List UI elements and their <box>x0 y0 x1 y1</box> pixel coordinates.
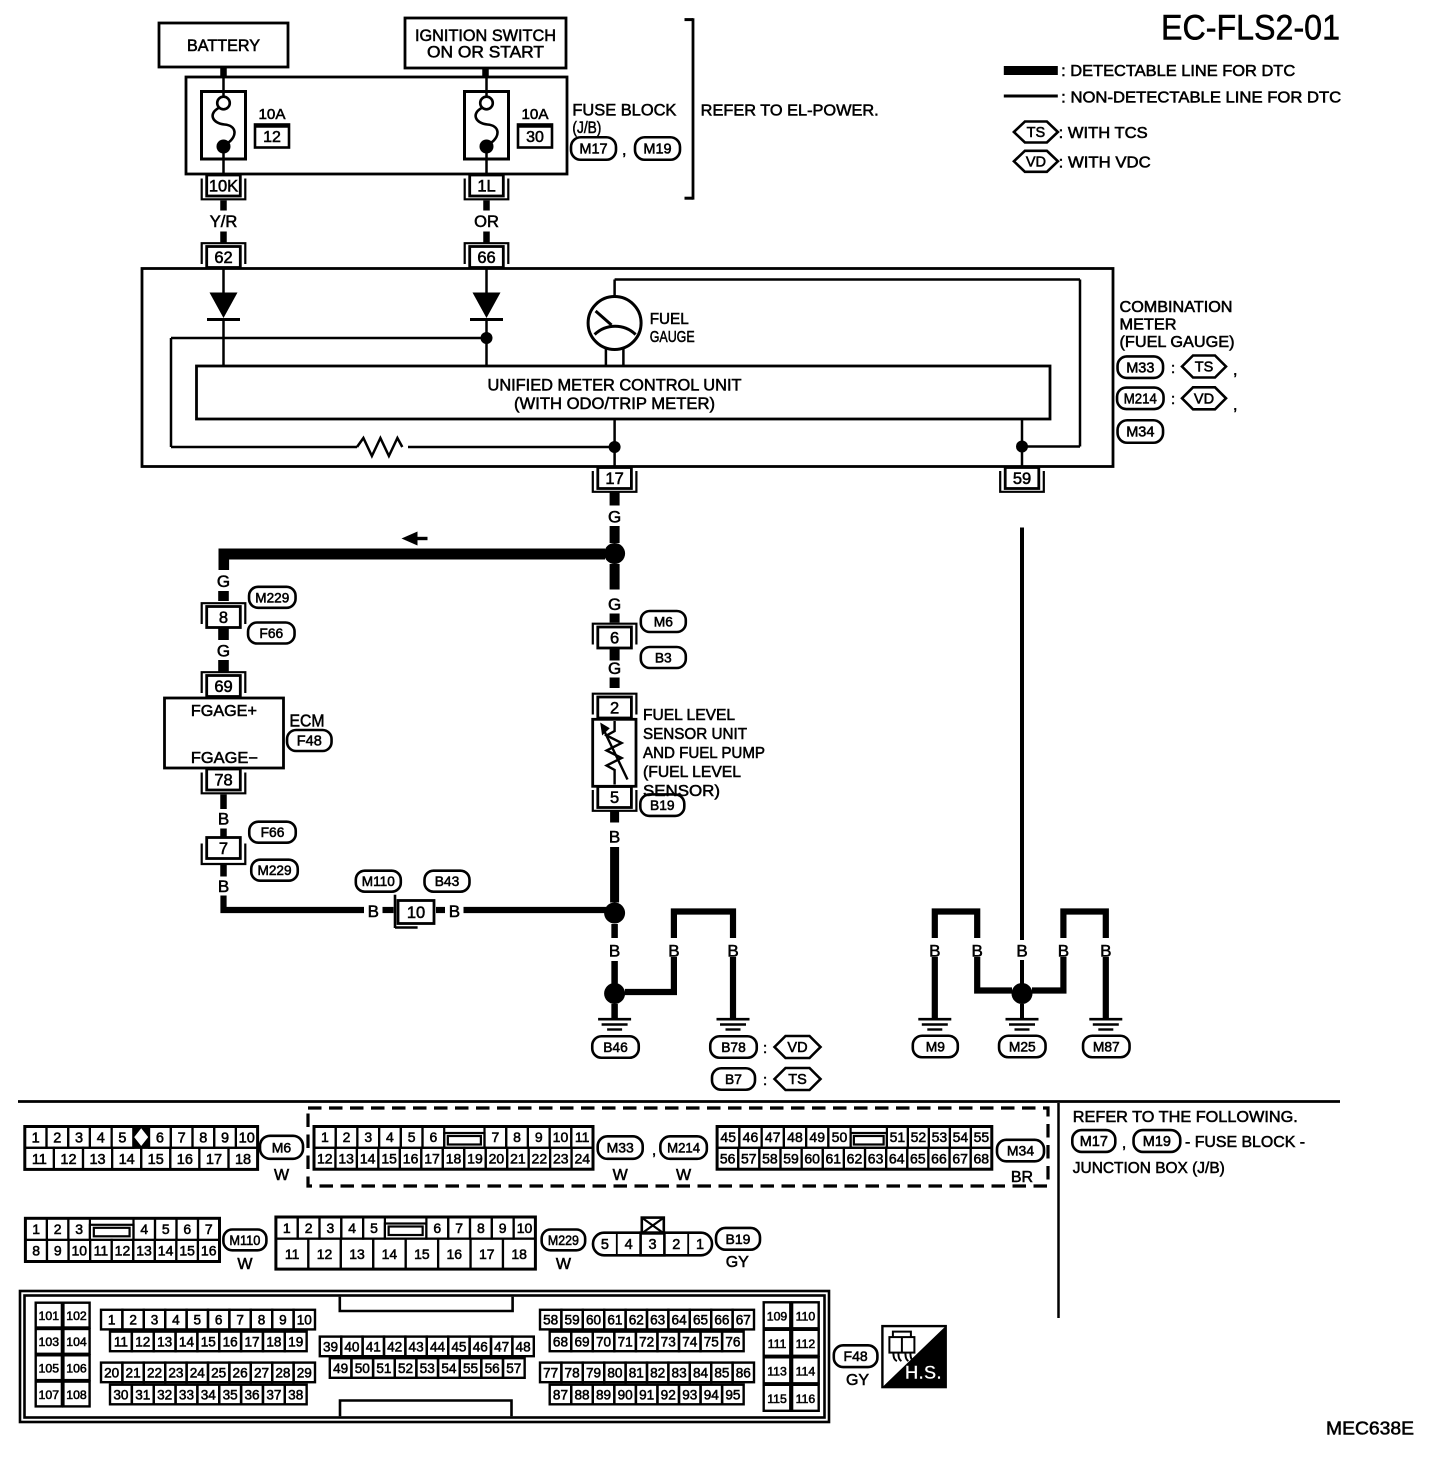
svg-text:50: 50 <box>832 1129 848 1145</box>
svg-text:13: 13 <box>349 1246 365 1262</box>
svg-text:10A: 10A <box>259 107 286 123</box>
svg-text:: DETECTABLE LINE FOR DTC: : DETECTABLE LINE FOR DTC <box>1061 63 1295 80</box>
svg-text:112: 112 <box>796 1337 816 1351</box>
svg-text:22: 22 <box>147 1365 162 1380</box>
svg-text:3: 3 <box>75 1221 83 1237</box>
svg-text:62: 62 <box>214 249 232 267</box>
svg-text:59: 59 <box>565 1312 580 1327</box>
svg-text:M9: M9 <box>926 1039 945 1054</box>
svg-text:5: 5 <box>601 1237 609 1253</box>
svg-text:74: 74 <box>682 1334 698 1349</box>
svg-text:61: 61 <box>607 1312 622 1327</box>
svg-text:113: 113 <box>767 1364 787 1378</box>
svg-text:B: B <box>218 810 229 829</box>
svg-text:51: 51 <box>890 1129 906 1145</box>
svg-text:3: 3 <box>327 1220 335 1236</box>
svg-text:41: 41 <box>366 1339 381 1354</box>
svg-text:4: 4 <box>386 1129 394 1145</box>
svg-text:B: B <box>929 942 940 961</box>
svg-text:17: 17 <box>206 1152 222 1168</box>
svg-text:TS: TS <box>788 1072 807 1088</box>
svg-text:M229: M229 <box>255 590 289 605</box>
svg-text:66: 66 <box>477 249 495 267</box>
svg-text:8: 8 <box>477 1220 485 1236</box>
svg-text:84: 84 <box>693 1365 709 1380</box>
svg-text:M19: M19 <box>643 142 671 158</box>
svg-text:78: 78 <box>565 1365 580 1380</box>
svg-text:6: 6 <box>215 1312 223 1327</box>
svg-text:26: 26 <box>233 1365 248 1380</box>
svg-text:15: 15 <box>148 1152 164 1168</box>
svg-text:14: 14 <box>119 1152 135 1168</box>
svg-text:OR: OR <box>474 213 499 231</box>
svg-text:BATTERY: BATTERY <box>187 37 260 55</box>
svg-text:4: 4 <box>348 1220 356 1236</box>
svg-text:10: 10 <box>517 1220 533 1236</box>
svg-text:B: B <box>609 942 620 961</box>
svg-text:24: 24 <box>574 1151 590 1167</box>
svg-text::: : <box>1171 360 1175 377</box>
svg-text:10: 10 <box>297 1312 313 1327</box>
svg-text:17: 17 <box>479 1246 495 1262</box>
svg-text:45: 45 <box>451 1339 466 1354</box>
svg-text:UNIFIED METER CONTROL UNIT: UNIFIED METER CONTROL UNIT <box>488 377 742 395</box>
svg-text:64: 64 <box>889 1151 905 1167</box>
svg-text:116: 116 <box>796 1392 816 1406</box>
svg-text:9: 9 <box>54 1243 62 1259</box>
svg-text:111: 111 <box>768 1337 787 1351</box>
svg-text:JUNCTION BOX (J/B): JUNCTION BOX (J/B) <box>1073 1160 1225 1177</box>
svg-text:18: 18 <box>235 1152 251 1168</box>
svg-text:101: 101 <box>39 1309 60 1323</box>
svg-text:85: 85 <box>714 1365 729 1380</box>
svg-text:54: 54 <box>441 1361 457 1376</box>
svg-text:82: 82 <box>650 1365 665 1380</box>
svg-text:60: 60 <box>586 1312 602 1327</box>
svg-text:7: 7 <box>219 840 228 858</box>
svg-text:92: 92 <box>661 1387 676 1402</box>
svg-text:88: 88 <box>574 1387 589 1402</box>
svg-text:1: 1 <box>32 1221 40 1237</box>
svg-text:53: 53 <box>932 1129 948 1145</box>
svg-text:M214: M214 <box>667 1140 700 1156</box>
svg-text:9: 9 <box>499 1220 507 1236</box>
svg-text:4: 4 <box>97 1130 105 1146</box>
svg-text:27: 27 <box>254 1365 269 1380</box>
svg-text:FUSE BLOCK: FUSE BLOCK <box>572 102 676 120</box>
svg-text:W: W <box>237 1256 253 1273</box>
svg-text:107: 107 <box>39 1388 60 1402</box>
svg-text:2: 2 <box>343 1129 351 1145</box>
svg-text:29: 29 <box>297 1365 312 1380</box>
svg-text:W: W <box>556 1256 572 1273</box>
svg-text:62: 62 <box>629 1312 644 1327</box>
svg-text:3: 3 <box>75 1130 83 1146</box>
svg-text:15: 15 <box>201 1334 216 1349</box>
svg-text:80: 80 <box>607 1365 623 1380</box>
svg-text:FUEL: FUEL <box>650 311 689 328</box>
svg-text:15: 15 <box>179 1243 195 1259</box>
svg-text:48: 48 <box>787 1129 803 1145</box>
svg-text:W: W <box>676 1167 692 1184</box>
svg-text:,: , <box>1233 397 1237 414</box>
svg-text:M87: M87 <box>1093 1039 1120 1054</box>
svg-text:10: 10 <box>553 1129 569 1145</box>
svg-text:10K: 10K <box>209 178 238 196</box>
svg-text:89: 89 <box>596 1387 611 1402</box>
svg-text:4: 4 <box>625 1237 633 1253</box>
svg-text:23: 23 <box>168 1365 183 1380</box>
svg-text:1L: 1L <box>477 178 495 196</box>
svg-text:M34: M34 <box>1126 425 1154 441</box>
svg-text:110: 110 <box>796 1309 816 1323</box>
svg-text:19: 19 <box>288 1334 303 1349</box>
svg-text:81: 81 <box>629 1365 644 1380</box>
svg-text:16: 16 <box>201 1243 217 1259</box>
svg-text:33: 33 <box>179 1387 194 1402</box>
svg-text:71: 71 <box>618 1334 633 1349</box>
svg-text:B3: B3 <box>655 650 672 665</box>
svg-text:VD: VD <box>1026 155 1046 171</box>
svg-text:13: 13 <box>89 1152 105 1168</box>
svg-text:5: 5 <box>370 1220 378 1236</box>
svg-text:40: 40 <box>344 1339 360 1354</box>
svg-text:M229: M229 <box>548 1233 579 1248</box>
svg-text:W: W <box>274 1167 290 1184</box>
svg-text:(J/B): (J/B) <box>572 119 601 137</box>
svg-text:MEC638E: MEC638E <box>1326 1418 1414 1439</box>
svg-text:17: 17 <box>244 1334 259 1349</box>
svg-text:2: 2 <box>610 700 619 718</box>
svg-text:2: 2 <box>129 1312 137 1327</box>
svg-text:51: 51 <box>376 1361 391 1376</box>
svg-text:16: 16 <box>223 1334 238 1349</box>
svg-text:19: 19 <box>467 1151 483 1167</box>
svg-text:66: 66 <box>931 1151 947 1167</box>
svg-text:43: 43 <box>409 1339 424 1354</box>
svg-text:16: 16 <box>177 1152 193 1168</box>
svg-text:18: 18 <box>446 1151 462 1167</box>
svg-text:B: B <box>1058 942 1069 961</box>
svg-text:108: 108 <box>66 1388 87 1402</box>
svg-text:AND FUEL PUMP: AND FUEL PUMP <box>643 745 765 762</box>
svg-text:57: 57 <box>741 1151 757 1167</box>
svg-text:B43: B43 <box>435 874 460 889</box>
svg-text:B19: B19 <box>726 1231 751 1247</box>
svg-text:M17: M17 <box>1080 1134 1108 1150</box>
svg-text:2: 2 <box>305 1220 313 1236</box>
svg-text:G: G <box>217 642 230 661</box>
svg-text:11: 11 <box>94 1243 109 1259</box>
svg-text:3: 3 <box>364 1129 372 1145</box>
svg-text:B7: B7 <box>725 1072 742 1087</box>
svg-text:49: 49 <box>333 1361 348 1376</box>
svg-text:53: 53 <box>420 1361 435 1376</box>
svg-text:5: 5 <box>194 1312 202 1327</box>
svg-text:,: , <box>652 1142 656 1159</box>
svg-text:4: 4 <box>140 1221 148 1237</box>
svg-text:6: 6 <box>156 1130 164 1146</box>
svg-text:Y/R: Y/R <box>210 213 238 231</box>
svg-text:52: 52 <box>911 1129 927 1145</box>
svg-text:1: 1 <box>283 1220 291 1236</box>
svg-text:M34: M34 <box>1007 1143 1034 1159</box>
svg-text:56: 56 <box>720 1151 736 1167</box>
svg-text:9: 9 <box>221 1130 229 1146</box>
svg-text:4: 4 <box>172 1312 180 1327</box>
svg-text:- FUSE BLOCK -: - FUSE BLOCK - <box>1185 1134 1305 1151</box>
svg-text:14: 14 <box>158 1243 174 1259</box>
svg-text:GAUGE: GAUGE <box>650 329 695 346</box>
svg-text:76: 76 <box>725 1334 740 1349</box>
svg-text:(FUEL LEVEL: (FUEL LEVEL <box>643 764 741 781</box>
svg-text:55: 55 <box>463 1361 478 1376</box>
svg-text:14: 14 <box>179 1334 195 1349</box>
svg-text:B19: B19 <box>650 798 675 813</box>
svg-text:1: 1 <box>321 1129 329 1145</box>
svg-text:7: 7 <box>205 1221 213 1237</box>
svg-text:39: 39 <box>323 1339 338 1354</box>
svg-text:M33: M33 <box>1126 360 1154 376</box>
svg-text:12: 12 <box>135 1334 150 1349</box>
svg-text:12: 12 <box>317 1151 333 1167</box>
svg-text:F66: F66 <box>259 626 283 641</box>
svg-text:72: 72 <box>639 1334 654 1349</box>
svg-text:5: 5 <box>162 1221 170 1237</box>
svg-text:M6: M6 <box>272 1139 292 1155</box>
svg-text:87: 87 <box>553 1387 568 1402</box>
svg-text:63: 63 <box>650 1312 665 1327</box>
svg-text:10: 10 <box>239 1130 255 1146</box>
svg-text:12: 12 <box>60 1152 76 1168</box>
svg-text:79: 79 <box>586 1365 601 1380</box>
svg-text:69: 69 <box>214 678 232 696</box>
svg-text:30: 30 <box>113 1387 129 1402</box>
svg-text:ECM: ECM <box>290 711 325 731</box>
svg-text:17: 17 <box>605 470 623 488</box>
svg-text:83: 83 <box>672 1365 687 1380</box>
svg-text:95: 95 <box>725 1387 740 1402</box>
svg-text:B: B <box>368 902 379 921</box>
svg-text:22: 22 <box>532 1151 548 1167</box>
svg-text:65: 65 <box>693 1312 708 1327</box>
svg-text:TS: TS <box>1027 125 1046 141</box>
svg-text:25: 25 <box>211 1365 226 1380</box>
svg-text:BR: BR <box>1011 1169 1033 1186</box>
svg-text:10: 10 <box>407 904 425 922</box>
svg-text:10: 10 <box>72 1243 88 1259</box>
svg-text:(FUEL GAUGE): (FUEL GAUGE) <box>1120 334 1235 351</box>
svg-text:M6: M6 <box>654 614 673 629</box>
svg-text:34: 34 <box>201 1387 217 1402</box>
svg-text:73: 73 <box>661 1334 676 1349</box>
svg-text:14: 14 <box>360 1151 376 1167</box>
svg-text:60: 60 <box>804 1151 820 1167</box>
svg-text:56: 56 <box>485 1361 500 1376</box>
svg-text:M17: M17 <box>579 142 607 158</box>
svg-text:59: 59 <box>783 1151 799 1167</box>
svg-text:42: 42 <box>387 1339 402 1354</box>
svg-text::: : <box>763 1072 767 1089</box>
svg-text:FGAGE+: FGAGE+ <box>191 703 257 720</box>
svg-text:36: 36 <box>244 1387 259 1402</box>
svg-text:5: 5 <box>610 789 619 807</box>
svg-text:M19: M19 <box>1143 1134 1171 1150</box>
svg-text:63: 63 <box>868 1151 884 1167</box>
svg-text:5: 5 <box>118 1130 126 1146</box>
svg-text:46: 46 <box>743 1129 759 1145</box>
svg-text:W: W <box>613 1167 629 1184</box>
svg-text:59: 59 <box>1013 470 1031 488</box>
svg-text:20: 20 <box>104 1365 120 1380</box>
svg-text:(WITH ODO/TRIP METER): (WITH ODO/TRIP METER) <box>514 395 715 413</box>
svg-text:67: 67 <box>952 1151 968 1167</box>
svg-text:115: 115 <box>767 1392 787 1406</box>
svg-text:55: 55 <box>974 1129 990 1145</box>
svg-text:7: 7 <box>178 1130 186 1146</box>
svg-text:EC-FLS2-01: EC-FLS2-01 <box>1161 9 1340 48</box>
svg-text:FUEL LEVEL: FUEL LEVEL <box>643 707 735 724</box>
svg-text:14: 14 <box>382 1246 398 1262</box>
svg-text:REFER TO EL-POWER.: REFER TO EL-POWER. <box>701 103 879 120</box>
svg-text:3: 3 <box>648 1237 656 1253</box>
svg-text:58: 58 <box>762 1151 778 1167</box>
svg-text:IGNITION SWITCH: IGNITION SWITCH <box>415 27 556 45</box>
svg-text:B: B <box>218 877 229 896</box>
svg-text:114: 114 <box>796 1364 816 1378</box>
svg-text:104: 104 <box>66 1335 87 1349</box>
svg-text:COMBINATION: COMBINATION <box>1120 299 1233 316</box>
svg-text:66: 66 <box>714 1312 729 1327</box>
svg-text:30: 30 <box>526 129 544 146</box>
svg-text:47: 47 <box>494 1339 509 1354</box>
svg-text:8: 8 <box>219 609 228 627</box>
svg-text:47: 47 <box>765 1129 781 1145</box>
svg-text:B: B <box>609 828 620 847</box>
svg-text:68: 68 <box>973 1151 989 1167</box>
svg-text:B: B <box>1100 942 1111 961</box>
svg-text:11: 11 <box>32 1152 47 1168</box>
svg-text:7: 7 <box>455 1220 463 1236</box>
svg-text:69: 69 <box>574 1334 589 1349</box>
svg-text:B: B <box>449 902 460 921</box>
svg-text:9: 9 <box>279 1312 287 1327</box>
svg-text:FGAGE−: FGAGE− <box>191 750 258 767</box>
svg-text::: : <box>763 1040 767 1057</box>
svg-text:,: , <box>1122 1135 1126 1152</box>
svg-text:18: 18 <box>266 1334 281 1349</box>
svg-text:6: 6 <box>429 1129 437 1145</box>
svg-text:M25: M25 <box>1009 1039 1036 1054</box>
svg-text:M214: M214 <box>1124 392 1157 408</box>
svg-text:B: B <box>1016 942 1027 961</box>
svg-text:ON OR START: ON OR START <box>427 44 544 62</box>
svg-text:38: 38 <box>288 1387 303 1402</box>
svg-text:1: 1 <box>108 1312 116 1327</box>
svg-text:8: 8 <box>32 1243 40 1259</box>
svg-text:77: 77 <box>543 1365 558 1380</box>
svg-text:54: 54 <box>953 1129 969 1145</box>
svg-text:78: 78 <box>214 772 232 790</box>
svg-text:102: 102 <box>66 1309 87 1323</box>
svg-text:75: 75 <box>704 1334 719 1349</box>
svg-text:8: 8 <box>513 1129 521 1145</box>
svg-text:12: 12 <box>317 1246 333 1262</box>
svg-text:32: 32 <box>157 1387 172 1402</box>
svg-text:65: 65 <box>910 1151 926 1167</box>
svg-text:10A: 10A <box>522 107 549 123</box>
svg-text:93: 93 <box>682 1387 697 1402</box>
svg-text:6: 6 <box>433 1220 441 1236</box>
svg-text:VD: VD <box>1194 392 1214 408</box>
svg-text:8: 8 <box>199 1130 207 1146</box>
svg-text:2: 2 <box>53 1130 61 1146</box>
svg-text:G: G <box>608 508 621 527</box>
svg-text:7: 7 <box>491 1129 499 1145</box>
svg-text:: NON-DETECTABLE LINE FOR DTC: : NON-DETECTABLE LINE FOR DTC <box>1061 90 1341 107</box>
svg-text:3: 3 <box>151 1312 159 1327</box>
svg-text:62: 62 <box>847 1151 863 1167</box>
svg-text:2: 2 <box>672 1237 680 1253</box>
svg-text:8: 8 <box>258 1312 266 1327</box>
svg-text:9: 9 <box>535 1129 543 1145</box>
svg-text::: : <box>1171 391 1175 408</box>
svg-text:58: 58 <box>543 1312 558 1327</box>
svg-text:52: 52 <box>398 1361 413 1376</box>
svg-text:M33: M33 <box>607 1140 634 1156</box>
svg-text:M110: M110 <box>362 874 395 889</box>
svg-text:M110: M110 <box>229 1233 260 1248</box>
svg-text:103: 103 <box>39 1335 60 1349</box>
svg-text:,: , <box>622 142 626 159</box>
svg-text:1: 1 <box>32 1130 40 1146</box>
svg-text:50: 50 <box>355 1361 371 1376</box>
svg-text:91: 91 <box>639 1387 654 1402</box>
svg-text:28: 28 <box>275 1365 290 1380</box>
svg-text:37: 37 <box>266 1387 281 1402</box>
svg-text:13: 13 <box>338 1151 354 1167</box>
svg-text:1: 1 <box>696 1237 704 1253</box>
svg-text:B: B <box>972 942 983 961</box>
svg-text:7: 7 <box>236 1312 244 1327</box>
svg-text:G: G <box>217 572 230 591</box>
svg-text:5: 5 <box>408 1129 416 1145</box>
svg-text:21: 21 <box>510 1151 526 1167</box>
svg-text:70: 70 <box>596 1334 612 1349</box>
svg-text:G: G <box>608 659 621 678</box>
svg-text:16: 16 <box>403 1151 419 1167</box>
svg-text:G: G <box>608 595 621 614</box>
svg-text:31: 31 <box>135 1387 150 1402</box>
svg-text:35: 35 <box>223 1387 238 1402</box>
svg-text:90: 90 <box>618 1387 634 1402</box>
svg-text:15: 15 <box>381 1151 397 1167</box>
svg-text:15: 15 <box>414 1246 430 1262</box>
svg-text:H.S.: H.S. <box>905 1363 942 1384</box>
svg-text:24: 24 <box>190 1365 206 1380</box>
svg-text:B: B <box>668 942 679 961</box>
svg-text:21: 21 <box>126 1365 141 1380</box>
svg-text:109: 109 <box>767 1309 788 1323</box>
svg-text:GY: GY <box>846 1372 869 1389</box>
svg-text:TS: TS <box>1195 360 1214 376</box>
svg-text:11: 11 <box>285 1246 300 1262</box>
svg-text:REFER TO THE FOLLOWING.: REFER TO THE FOLLOWING. <box>1073 1109 1298 1126</box>
svg-text:METER: METER <box>1120 317 1177 334</box>
svg-text:13: 13 <box>136 1243 152 1259</box>
svg-text:,: , <box>1233 362 1237 379</box>
svg-text:F48: F48 <box>297 734 322 750</box>
